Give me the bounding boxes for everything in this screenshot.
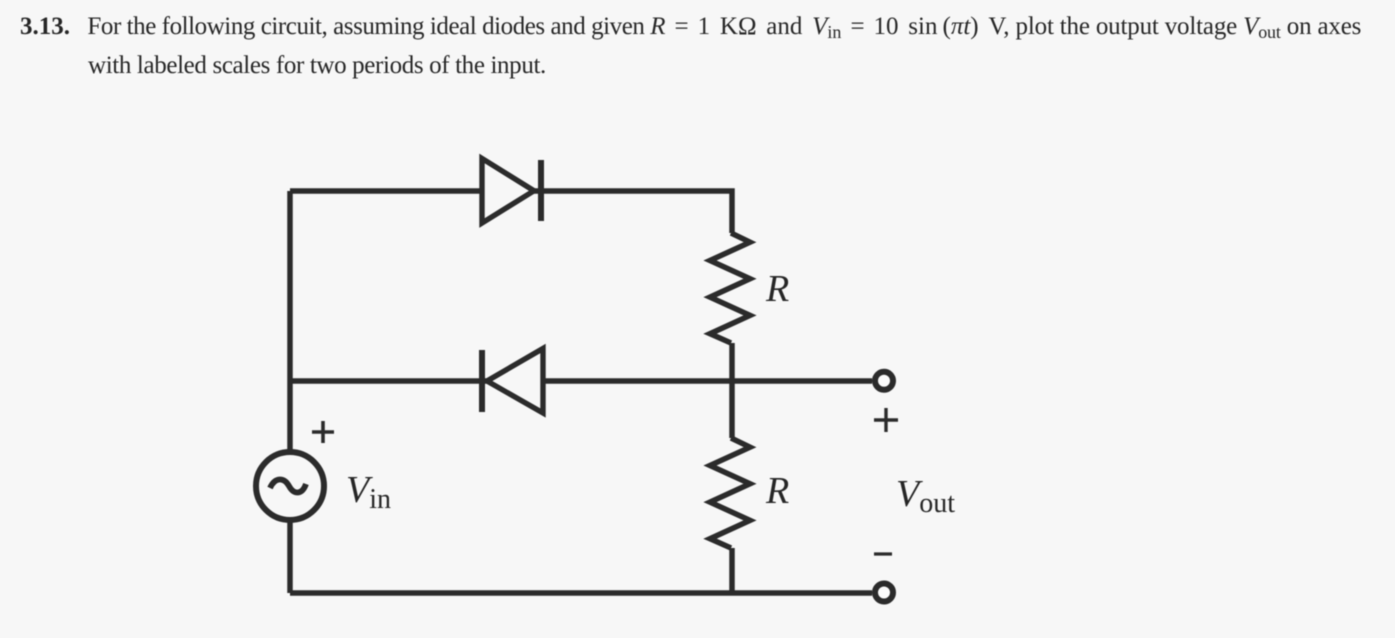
- diode D2 (middle, pointing left) triangle: [487, 349, 543, 414]
- problem text line 2: [88, 52, 546, 80]
- output terminal (upper): [875, 372, 893, 390]
- label R upper: [766, 267, 789, 311]
- plus sign at output: [874, 408, 898, 432]
- diode D1 (top, pointing right) triangle: [482, 159, 534, 224]
- output terminal (lower): [875, 584, 893, 602]
- wire: middle horizontal from left rail to output terminal: [290, 378, 872, 384]
- diode D1 cathode bar: [538, 160, 544, 221]
- wire: top horizontal from left rail to right branch, corner down to resistor: [290, 191, 732, 233]
- wire: left vertical rail (source bottom to bottom wire): [287, 520, 293, 593]
- resistor R (lower) zigzag: [710, 438, 750, 548]
- diode D2 cathode bar: [479, 350, 485, 412]
- AC source sine tilde: [270, 479, 306, 492]
- AC source Vin circle: [256, 452, 324, 520]
- wire: left vertical rail (top wire to source top): [287, 191, 293, 452]
- label Vout: [896, 472, 955, 516]
- wire: R lower bottom lead to bottom wire: [729, 548, 735, 593]
- plus sign at source: [312, 421, 334, 443]
- resistor R (upper) zigzag: [710, 233, 750, 343]
- label R lower: [766, 469, 789, 513]
- wire: R upper bottom lead to middle wire: [729, 343, 735, 381]
- minus sign at output: [874, 552, 892, 555]
- label Vin: [346, 468, 391, 512]
- problem text line 1: [20, 13, 1361, 41]
- wire: bottom horizontal to lower output terminal: [290, 590, 872, 596]
- wire: R lower top lead from middle wire: [729, 381, 735, 438]
